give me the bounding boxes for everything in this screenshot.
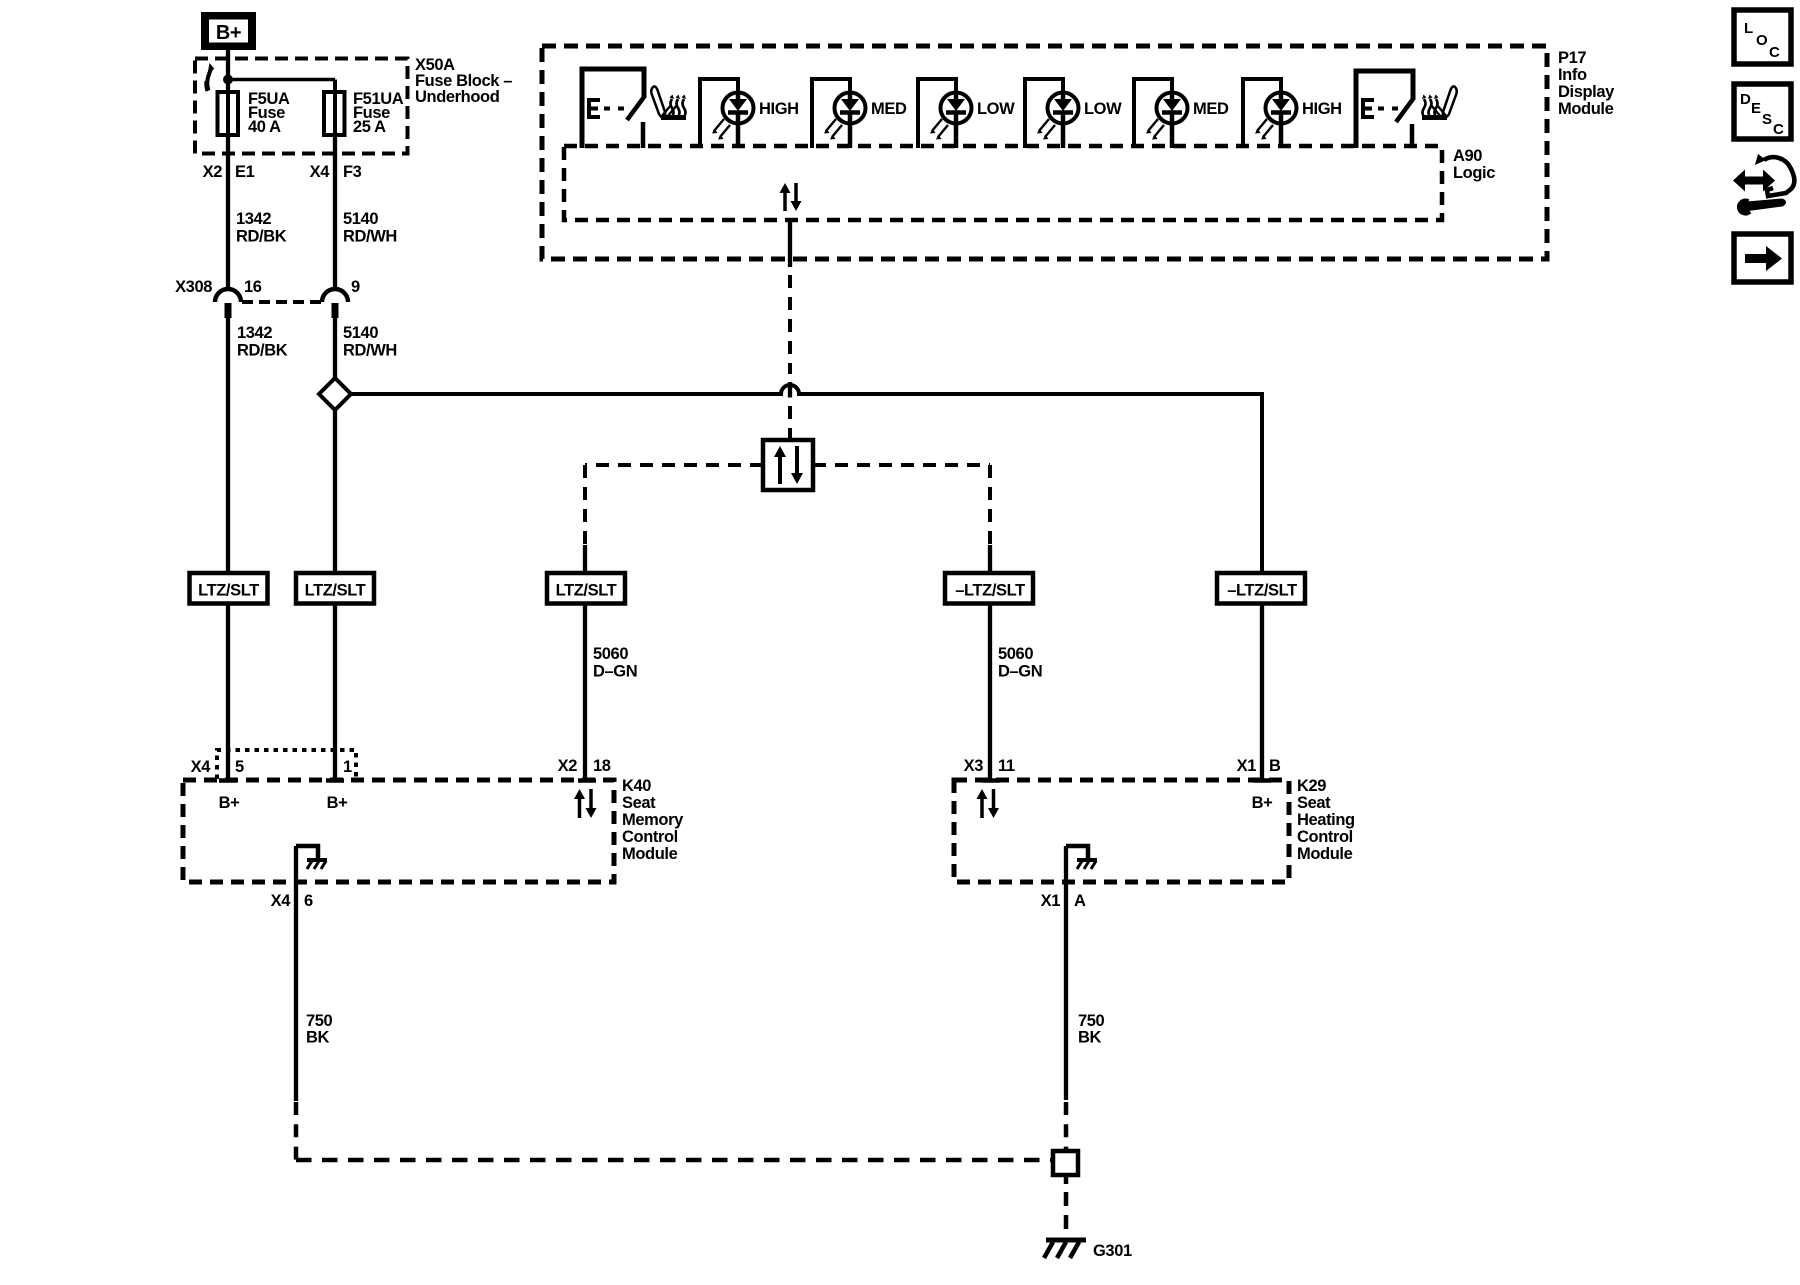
svg-text:A: A	[1074, 892, 1086, 910]
serial data arrows in K29	[977, 789, 1000, 818]
svg-text:BK: BK	[306, 1029, 330, 1047]
LED indicator MED right	[1134, 79, 1229, 148]
svg-text:11: 11	[998, 757, 1015, 775]
svg-text:D–GN: D–GN	[998, 663, 1042, 681]
svg-text:E1: E1	[235, 163, 255, 181]
svg-text:B+: B+	[219, 794, 240, 812]
svg-text:Seat: Seat	[1297, 794, 1331, 812]
inline connector X308 pin 9	[322, 278, 360, 318]
svg-text:HIGH: HIGH	[1302, 100, 1342, 118]
wire 5060 D-GN left	[585, 604, 637, 782]
logic block A90 outline	[564, 146, 1442, 220]
heated seat icon right	[1422, 86, 1457, 117]
connector dashed link	[242, 300, 322, 304]
label 750 BK right	[1078, 1012, 1105, 1047]
LED indicator LOW right	[1025, 79, 1122, 148]
svg-text:40 A: 40 A	[248, 118, 281, 136]
wire 5060 D-GN right	[990, 604, 1042, 782]
svg-text:5140: 5140	[343, 210, 378, 228]
fuse F51UA 25 A	[324, 90, 404, 136]
svg-text:RD/BK: RD/BK	[237, 342, 288, 360]
serial data branch right	[813, 465, 990, 574]
label A90 Logic	[1453, 147, 1495, 182]
svg-text:750: 750	[306, 1012, 333, 1030]
svg-text:5060: 5060	[593, 645, 628, 663]
ground G301	[1044, 1240, 1132, 1260]
harness tag -LTZ/SLT 5	[1217, 573, 1305, 604]
svg-text:Memory: Memory	[622, 811, 684, 829]
svg-text:25 A: 25 A	[353, 118, 386, 136]
svg-text:LOW: LOW	[1084, 100, 1122, 118]
pin 1 terminal bar	[326, 778, 344, 783]
pin labels X2 18	[558, 757, 611, 775]
svg-text:C: C	[1769, 44, 1780, 61]
harness tag LTZ/SLT 2	[296, 573, 374, 604]
splice block S	[1053, 1151, 1078, 1175]
wire 5140 RD/WH lower	[335, 317, 397, 379]
fusible element hook symbol	[206, 63, 214, 91]
label X50A Fuse Block - Underhood	[415, 56, 512, 106]
svg-text:Display: Display	[1558, 83, 1615, 101]
LED indicator MED left	[812, 79, 907, 148]
serial data dash at crossover	[788, 382, 792, 398]
internal ground K29	[1066, 846, 1097, 869]
wire LTZ/SLT1 to K40 pin 5	[226, 604, 230, 782]
label B+ pin B	[1252, 794, 1273, 812]
svg-text:B+: B+	[216, 22, 241, 44]
wire LTZ/SLT2 to K40 pin 1	[333, 604, 337, 782]
svg-text:O: O	[1756, 32, 1768, 49]
svg-text:E: E	[1751, 100, 1761, 117]
fuse F5UA 40 A	[218, 90, 290, 136]
svg-text:L: L	[1744, 20, 1753, 37]
battery positive terminal B+	[201, 12, 256, 50]
bus wire from splice to K29 feed with crossover hop	[351, 385, 1262, 574]
svg-text:RD/BK: RD/BK	[236, 228, 287, 246]
svg-text:6: 6	[304, 892, 313, 910]
svg-text:D–GN: D–GN	[593, 663, 637, 681]
svg-text:F3: F3	[343, 163, 362, 181]
switch S1 left seat heating	[582, 69, 644, 148]
svg-text:K29: K29	[1297, 777, 1326, 795]
svg-text:X2: X2	[203, 163, 223, 181]
label B+ pin 5	[219, 794, 240, 812]
wire branch to fuse F51UA	[228, 80, 335, 93]
wire 5140 RD/WH upper	[335, 135, 397, 289]
LED indicator LOW left	[918, 79, 1015, 148]
pin labels X4 F3	[310, 163, 362, 181]
svg-text:9: 9	[351, 278, 360, 296]
label P17 Info Display Module	[1558, 49, 1615, 118]
svg-text:1342: 1342	[237, 324, 272, 342]
svg-text:750: 750	[1078, 1012, 1105, 1030]
nav icon DESC	[1734, 84, 1791, 139]
LED indicator HIGH left	[700, 79, 799, 148]
nav icon diagram arrows and wrench	[1733, 154, 1794, 215]
wire LTZ/SLT5 to K29 pin B	[1260, 604, 1264, 782]
svg-text:–LTZ/SLT: –LTZ/SLT	[955, 582, 1025, 600]
switch S2 right seat heating	[1356, 71, 1413, 148]
dashed ground run left	[296, 1102, 1051, 1161]
LED indicator HIGH right	[1243, 79, 1342, 148]
module K29 outline	[954, 780, 1289, 882]
svg-text:X4: X4	[271, 892, 292, 910]
pin labels X4 6	[271, 892, 313, 910]
svg-text:LTZ/SLT: LTZ/SLT	[198, 582, 259, 600]
serial data arrows in K40	[574, 789, 597, 818]
svg-text:Control: Control	[1297, 828, 1353, 846]
pin labels X1 A	[1041, 892, 1086, 910]
dashed ground drop right	[1064, 1102, 1069, 1151]
nav icon forward arrow	[1734, 234, 1791, 282]
pin label 1	[343, 758, 352, 776]
splice diamond	[319, 378, 351, 410]
svg-text:16: 16	[244, 278, 262, 296]
svg-text:B: B	[1269, 757, 1281, 775]
svg-text:Underhood: Underhood	[415, 88, 499, 106]
svg-text:X2: X2	[558, 757, 578, 775]
svg-text:Module: Module	[622, 845, 678, 863]
pin labels X4 5	[191, 758, 244, 776]
display module P17 outline	[542, 46, 1547, 259]
label X308	[175, 278, 212, 296]
svg-text:S: S	[1762, 111, 1772, 128]
svg-text:HIGH: HIGH	[759, 100, 799, 118]
svg-text:X308: X308	[175, 278, 212, 296]
svg-text:X4: X4	[310, 163, 331, 181]
svg-text:D: D	[1740, 91, 1751, 108]
junction node at fuse feed	[223, 75, 233, 85]
svg-text:MED: MED	[871, 100, 907, 118]
fuse block X50A outline	[195, 59, 408, 154]
svg-text:Module: Module	[1558, 100, 1614, 118]
svg-text:RD/WH: RD/WH	[343, 342, 397, 360]
svg-text:18: 18	[593, 757, 611, 775]
svg-text:BK: BK	[1078, 1029, 1102, 1047]
inline connector X308 pin 16	[215, 278, 262, 318]
svg-text:1: 1	[343, 758, 352, 776]
connector X4 dotted group	[217, 750, 356, 779]
svg-text:5: 5	[235, 758, 244, 776]
wire from B+ into fuse block	[226, 50, 230, 92]
internal ground K40	[296, 846, 327, 869]
svg-text:X4: X4	[191, 758, 212, 776]
harness tag -LTZ/SLT 4	[945, 573, 1033, 604]
svg-text:LTZ/SLT: LTZ/SLT	[305, 582, 366, 600]
pin 5 terminal bar	[219, 778, 237, 783]
svg-text:5140: 5140	[343, 324, 378, 342]
label B+ pin 1	[327, 794, 348, 812]
label K29 Seat Heating Control Module	[1297, 777, 1355, 863]
harness tag LTZ/SLT 3	[547, 573, 625, 604]
svg-text:Info: Info	[1558, 66, 1587, 84]
serial data lead inside display module	[788, 219, 792, 267]
svg-text:5060: 5060	[998, 645, 1033, 663]
serial data wire to interface	[788, 275, 792, 440]
serial data interface symbol	[763, 440, 813, 490]
module K40 outline	[183, 780, 614, 882]
svg-text:B+: B+	[1252, 794, 1273, 812]
svg-text:Heating: Heating	[1297, 811, 1355, 829]
wire 1342 RD/BK upper	[228, 135, 287, 289]
svg-text:MED: MED	[1193, 100, 1229, 118]
svg-text:Module: Module	[1297, 845, 1353, 863]
svg-text:B+: B+	[327, 794, 348, 812]
svg-text:G301: G301	[1093, 1242, 1132, 1260]
svg-text:Seat: Seat	[622, 794, 656, 812]
wire splice to LTZ/SLT below	[333, 410, 337, 574]
pin 18 terminal bar	[578, 778, 596, 783]
svg-text:1342: 1342	[236, 210, 271, 228]
svg-text:K40: K40	[622, 777, 651, 795]
svg-text:Control: Control	[622, 828, 678, 846]
svg-text:RD/WH: RD/WH	[343, 228, 397, 246]
heated seat icon left	[651, 86, 686, 117]
svg-text:LOW: LOW	[977, 100, 1015, 118]
nav icon LOC	[1734, 10, 1791, 64]
dashed lead to ground	[1064, 1175, 1069, 1239]
pin labels X2 E1	[203, 163, 255, 181]
pin labels X3 11	[964, 757, 1015, 775]
svg-text:Logic: Logic	[1453, 164, 1495, 182]
svg-text:–LTZ/SLT: –LTZ/SLT	[1227, 582, 1297, 600]
svg-text:X1: X1	[1041, 892, 1061, 910]
serial data branch left	[585, 465, 763, 574]
svg-text:P17: P17	[1558, 49, 1586, 67]
label 750 BK left	[306, 1012, 333, 1047]
svg-text:LTZ/SLT: LTZ/SLT	[556, 582, 617, 600]
serial data arrows in A90	[780, 183, 802, 211]
svg-text:X3: X3	[964, 757, 984, 775]
pin labels X1 B	[1237, 757, 1281, 775]
label K40 Seat Memory Control Module	[622, 777, 684, 863]
harness tag LTZ/SLT 1	[190, 573, 268, 604]
pin 11 terminal bar	[982, 778, 1000, 783]
svg-text:X1: X1	[1237, 757, 1257, 775]
ground wire K40 pin 6	[294, 846, 298, 1101]
svg-text:A90: A90	[1453, 147, 1482, 165]
ground wire K29 pin A	[1064, 846, 1068, 1100]
wire 1342 RD/BK lower	[228, 317, 288, 574]
pin B terminal bar	[1253, 778, 1271, 783]
svg-text:C: C	[1773, 121, 1784, 138]
